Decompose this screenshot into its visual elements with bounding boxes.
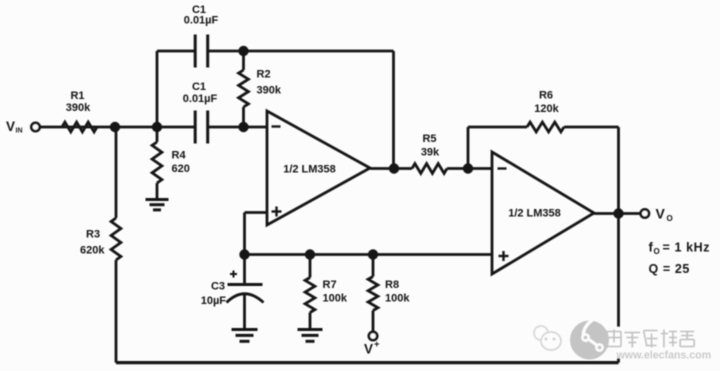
svg-text:R6: R6 (539, 90, 553, 102)
svg-text:39k: 39k (421, 147, 440, 159)
svg-text:+: + (374, 339, 380, 350)
svg-text:R4: R4 (172, 150, 187, 162)
svg-text:0.01µF: 0.01µF (183, 93, 218, 105)
svg-text:R2: R2 (257, 69, 271, 81)
svg-text:R3: R3 (86, 229, 100, 241)
svg-text:C3: C3 (211, 281, 225, 293)
svg-text:1/2 LM358: 1/2 LM358 (508, 208, 561, 220)
svg-text:O: O (667, 214, 673, 223)
svg-text:0.01µF: 0.01µF (184, 15, 219, 27)
svg-text:390k: 390k (66, 102, 91, 114)
svg-text:R7: R7 (323, 279, 337, 291)
svg-text:1/2 LM358: 1/2 LM358 (283, 164, 336, 176)
svg-text:Q = 25: Q = 25 (649, 262, 690, 276)
svg-text:V: V (656, 206, 666, 222)
svg-text:R8: R8 (385, 279, 399, 291)
svg-text:390k: 390k (257, 85, 282, 97)
svg-text:100k: 100k (385, 293, 410, 305)
svg-text:IN: IN (16, 128, 23, 135)
svg-text:R1: R1 (70, 90, 84, 102)
svg-text:= 1 kHz: = 1 kHz (663, 241, 711, 255)
svg-text:C1: C1 (192, 81, 206, 93)
svg-text:R5: R5 (422, 133, 436, 145)
svg-text:120k: 120k (534, 103, 559, 115)
svg-text:620: 620 (172, 163, 190, 175)
svg-text:V: V (364, 342, 373, 357)
svg-text:10µF: 10µF (201, 295, 227, 307)
svg-text:O: O (654, 247, 660, 256)
svg-text:V: V (6, 119, 15, 134)
svg-text:620k: 620k (80, 245, 105, 257)
svg-text:100k: 100k (323, 293, 348, 305)
svg-text:www.elecfans.com: www.elecfans.com (616, 350, 712, 362)
